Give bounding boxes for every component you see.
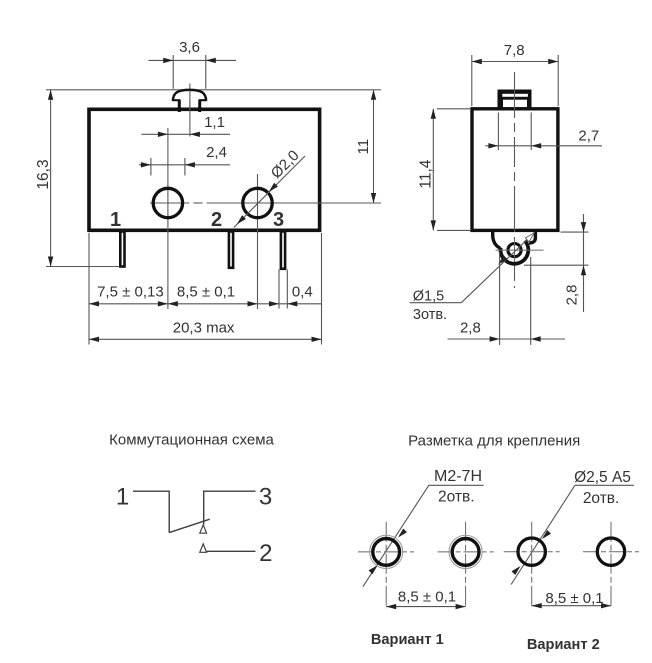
plunger lip right: [199, 99, 207, 101]
svg-text:2,8: 2,8: [460, 319, 481, 336]
hole 1: [153, 188, 182, 217]
svg-text:1: 1: [116, 484, 129, 511]
variant 2 hole left crosshair: [504, 551, 560, 553]
svg-text:2,4: 2,4: [206, 144, 227, 161]
svg-text:2отв.: 2отв.: [583, 490, 620, 507]
extension line top (plunger top level): [46, 89, 381, 91]
centerline hole 1: [167, 128, 169, 309]
switch blade: [169, 519, 210, 532]
dimension 16,3: [50, 90, 52, 267]
svg-text:Ø2,5 А5: Ø2,5 А5: [574, 469, 631, 486]
centerline plunger axis lower: [189, 91, 191, 137]
svg-text:Вариант 1: Вариант 1: [371, 632, 444, 648]
extension line 3,6 right: [205, 55, 207, 89]
svg-text:20,3 max: 20,3 max: [173, 320, 235, 337]
svg-text:8,5 ± 0,1: 8,5 ± 0,1: [177, 284, 235, 301]
svg-text:3,6: 3,6: [179, 39, 200, 56]
svg-text:8,5 ± 0,1: 8,5 ± 0,1: [545, 590, 603, 607]
plunger stem left: [178, 100, 181, 112]
svg-text:3отв.: 3отв.: [413, 307, 447, 323]
svg-text:2: 2: [259, 540, 272, 567]
svg-text:7,5 ± 0,13: 7,5 ± 0,13: [97, 284, 164, 301]
pin 1: [120, 232, 124, 267]
dimension 11,4: [437, 108, 470, 110]
pin 2: [229, 232, 233, 268]
svg-text:Разметка для крепления: Разметка для крепления: [408, 433, 580, 450]
dimension 20,3 max: [89, 338, 322, 340]
extension lines 7,8: [471, 55, 473, 106]
dimension 7,8: [472, 61, 558, 63]
svg-text:2отв.: 2отв.: [438, 488, 475, 505]
extension lines 0,4: [278, 270, 280, 309]
dimension 11: [373, 90, 375, 203]
svg-text:2: 2: [211, 209, 222, 231]
svg-text:7,8: 7,8: [504, 42, 525, 59]
body outline front: [89, 109, 320, 230]
svg-text:11,4: 11,4: [418, 159, 435, 188]
wire from 1: [133, 491, 169, 532]
svg-text:2,7: 2,7: [578, 128, 599, 145]
svg-text:Коммутационная схема: Коммутационная схема: [109, 432, 274, 449]
variant 2 hole left: [518, 538, 545, 565]
pin 3: [281, 232, 285, 269]
contact NO triangle: [200, 544, 207, 552]
svg-text:3: 3: [259, 484, 272, 511]
dimension bottom 2,8: [448, 338, 566, 340]
centerline hole 3: [257, 174, 259, 309]
variant 1 hole left crosshair: [358, 551, 414, 553]
wire from 2: [207, 550, 256, 552]
extension line body right: [321, 233, 323, 345]
svg-text:11: 11: [355, 139, 372, 155]
svg-text:Вариант 2: Вариант 2: [527, 637, 600, 653]
svg-text:1,1: 1,1: [204, 114, 225, 131]
extension line body left: [88, 233, 90, 345]
svg-text:2,8: 2,8: [564, 285, 581, 306]
dimension 8,5 variant 2: [532, 605, 611, 607]
extension right 2,8 top: [561, 231, 589, 233]
leader O2,0: [234, 156, 305, 228]
centerline side axis: [514, 72, 516, 288]
leader O2,5: [511, 485, 575, 584]
variant 1 hole right crosshair: [438, 551, 494, 553]
leader O1,5: [461, 234, 533, 303]
plunger stem right: [198, 100, 201, 112]
svg-text:Ø1,5: Ø1,5: [413, 289, 444, 305]
crosshair bracket hole: [496, 249, 544, 251]
svg-text:3: 3: [273, 209, 284, 231]
mounting bracket curl: [493, 231, 501, 249]
svg-text:0,4: 0,4: [292, 284, 313, 301]
svg-text:8,5 ± 0,1: 8,5 ± 0,1: [398, 588, 456, 605]
contact NC triangle: [200, 525, 207, 533]
dimension right 2,8: [583, 214, 585, 312]
hole 3: [243, 188, 272, 217]
dimension 2,7: [485, 145, 602, 147]
dimension 1,1: [142, 133, 231, 135]
dimension chain 7,5 / 8,5 / 0,4: [89, 303, 322, 305]
dimension 2,4: [150, 158, 152, 176]
body outline side: [472, 109, 558, 231]
side plunger: [498, 90, 532, 109]
plunger lip left: [172, 99, 180, 101]
dimension 8,5 variant 1: [386, 606, 465, 608]
variant 1 hole left: [370, 535, 403, 568]
leader M2-7H: [363, 485, 429, 586]
svg-text:16,3: 16,3: [35, 159, 52, 189]
extension line 3,6 left: [172, 55, 174, 89]
centerline plunger axis: [189, 84, 191, 137]
variant 2 hole right: [597, 538, 624, 565]
wire from 3: [204, 491, 256, 524]
dimension line 3,6: [149, 59, 237, 61]
variant 2 hole right crosshair: [583, 551, 639, 553]
extension lines bottom 2,8: [499, 252, 501, 345]
mounting hole ring O1,5: [508, 244, 521, 257]
extension lines 2,7: [497, 113, 499, 151]
centerline holes horizontal: [150, 202, 190, 204]
extension curl bottom: [524, 264, 589, 266]
plunger dome: [173, 90, 206, 101]
svg-text:М2-7Н: М2-7Н: [434, 468, 482, 485]
svg-text:1: 1: [110, 209, 121, 231]
variant 1 hole right: [449, 535, 482, 568]
